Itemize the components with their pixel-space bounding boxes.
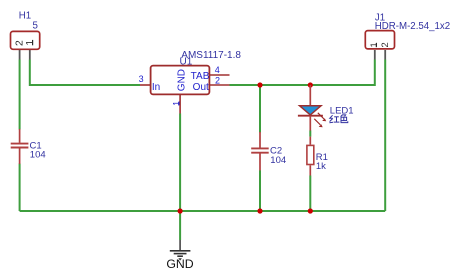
svg-text:LED1: LED1 <box>330 105 354 116</box>
svg-text:U1: U1 <box>180 57 193 68</box>
svg-text:2: 2 <box>15 40 26 46</box>
connector J1 <box>365 31 394 60</box>
pin 3 (In) <box>139 74 151 85</box>
wire H1 pin2 down to C1 top <box>19 60 21 130</box>
pin 4 (TAB) <box>210 65 230 75</box>
svg-text:104: 104 <box>270 155 286 166</box>
wire R1 bottom to rail <box>309 176 311 212</box>
wire C2 branch bottom <box>259 170 261 211</box>
svg-text:1: 1 <box>25 40 36 46</box>
svg-text:2: 2 <box>215 76 220 86</box>
junction dot rail/GND <box>178 208 183 213</box>
svg-text:In: In <box>152 82 160 93</box>
svg-text:1: 1 <box>369 42 379 47</box>
svg-text:1: 1 <box>171 101 181 106</box>
svg-text:Out: Out <box>193 82 209 93</box>
wire U1 Out to J1 pin1 <box>230 60 375 86</box>
wire U1 GND pin to rail <box>179 114 181 212</box>
junction dot Out/LED1 <box>308 82 313 87</box>
resistor R1 <box>307 137 314 176</box>
wire bottom ground rail <box>20 210 386 212</box>
svg-text:1k: 1k <box>316 161 326 172</box>
junction dot rail/C2 <box>257 208 262 213</box>
svg-text:5: 5 <box>33 20 38 31</box>
svg-text:4: 4 <box>215 65 220 75</box>
value 红色 (red) drawn as strokes <box>329 115 347 123</box>
svg-text:2: 2 <box>380 42 390 47</box>
capacitor C2 <box>251 132 269 170</box>
capacitor C1 <box>11 129 29 164</box>
pin 1 (GND) <box>171 95 181 114</box>
op-amp U1 (AMS1117-1.8 regulator) <box>151 66 210 95</box>
ground symbol <box>170 240 191 261</box>
wire H1 pin1 to U1 In (net 5) <box>30 60 140 86</box>
wire GND stub <box>179 211 181 240</box>
svg-text:GND: GND <box>177 69 188 91</box>
svg-text:3: 3 <box>139 74 144 84</box>
junction dot rail/R1 <box>308 208 313 213</box>
svg-text:104: 104 <box>30 150 46 161</box>
LED LED1 <box>298 85 326 131</box>
wire C2 branch top <box>259 85 261 132</box>
wire C1 bottom to bottom rail <box>19 164 21 212</box>
svg-text:H1: H1 <box>19 11 31 22</box>
pin 2 (Out) <box>210 76 230 86</box>
svg-text:GND: GND <box>166 257 193 271</box>
svg-text:TAB: TAB <box>191 71 210 82</box>
connector H1 <box>11 31 40 59</box>
wire J1 pin2 down to rail <box>384 60 386 212</box>
junction dot Out/C2 <box>257 82 262 87</box>
svg-text:HDR-M-2.54_1x2: HDR-M-2.54_1x2 <box>375 21 450 32</box>
wire LED1 cathode to R1 <box>309 130 311 136</box>
